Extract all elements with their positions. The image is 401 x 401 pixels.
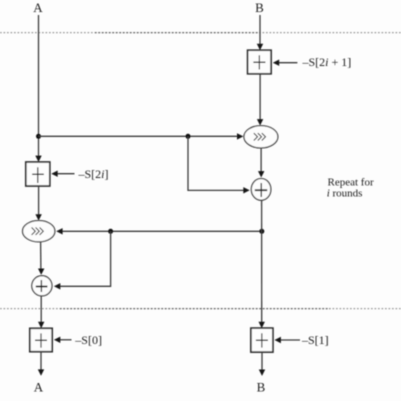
wire A down to adder box: [38, 15, 40, 157]
plus sign in adder S[0]: [40, 333, 42, 347]
plus sign in adder S[1]: [261, 333, 263, 347]
arrowhead into adder S[2i]: [35, 156, 41, 162]
svg-text:–S[1]: –S[1]: [301, 333, 329, 347]
plus in left XOR: [36, 286, 48, 288]
svg-text:A: A: [34, 380, 44, 395]
arrowhead into right rotate top: [257, 119, 263, 125]
wire left XOR down to adder S[0]: [40, 296, 42, 323]
plus in right XOR: [255, 189, 267, 191]
svg-text:B: B: [257, 380, 266, 395]
arrow wire into adder S[2i+1] from label: [279, 62, 298, 64]
arrowhead into adder S[2i+1]: [257, 44, 263, 50]
wire right rotate down to right XOR: [260, 148, 262, 172]
junction node at 261.8,231: [259, 229, 264, 234]
svg-text:B: B: [255, 0, 264, 15]
svg-text:i rounds: i rounds: [327, 188, 363, 200]
junction node on A wire: [36, 134, 41, 139]
arrowhead output A: [38, 369, 44, 375]
bottom dashed boundary line: [0, 308, 401, 310]
arrowhead into right XOR top: [258, 171, 264, 177]
arrow wire into adder S[0] from label: [60, 339, 72, 341]
arrowhead into adder S[0]: [38, 322, 44, 328]
arrow wire into adder S[1] from label: [281, 339, 301, 341]
wire B down to adder S[2i+1]: [259, 15, 261, 45]
XOR circle (right): [251, 179, 271, 201]
adder box S[1]: [251, 328, 273, 352]
arrowhead into left rotate from right: [56, 228, 62, 234]
XOR circle (left): [32, 276, 52, 296]
wire adder S[2i] to left rotate: [38, 186, 40, 216]
wire left rotate to left XOR: [40, 242, 42, 270]
wire adder S[2i+1] down to right rotate: [259, 74, 261, 120]
chevrons >>> in right rotate: [254, 133, 266, 140]
arrow wire into adder S[2i] from label: [57, 173, 75, 175]
wire junction 110 down and into left XOR: [60, 231, 111, 286]
adder box S[2i+1]: [248, 50, 272, 74]
plus sign in adder S[2i+1]: [258, 55, 260, 69]
svg-text:–S[2i]: –S[2i]: [78, 167, 109, 181]
wire adder S[1] down to output B: [261, 352, 263, 370]
junction node at 188,136: [186, 134, 191, 139]
chevrons >>> in left rotate: [32, 228, 44, 235]
top dashed boundary line: [0, 32, 401, 34]
wire right XOR down to adder S[1]: [261, 200, 263, 323]
junction node at 110.6,231: [108, 229, 113, 234]
arrowhead into adder S[1]: [259, 322, 265, 328]
arrowhead into right XOR: [243, 187, 249, 193]
adder box S[0]: [30, 328, 52, 351]
rotate-right ellipse (left): [23, 221, 55, 242]
svg-text:–S[0]: –S[0]: [74, 333, 102, 347]
arrowhead into right rotate ellipse: [237, 133, 243, 139]
arrowhead output B: [259, 370, 265, 376]
arrowhead into left XOR from right: [54, 283, 60, 289]
arrowhead into left XOR: [38, 269, 44, 275]
svg-text:–S[2i + 1]: –S[2i + 1]: [302, 55, 352, 69]
svg-text:A: A: [33, 0, 43, 15]
plus sign in adder S[2i]: [37, 167, 39, 183]
horizontal wire from right column into left rotate: [62, 230, 262, 232]
adder box S[2i]: [26, 162, 50, 186]
wire junction to right-rotate (horizontal): [39, 135, 238, 137]
wire adder S[0] down to output A: [40, 352, 42, 371]
rotate-right ellipse (right): [244, 126, 278, 148]
arrowhead into left rotate: [35, 214, 41, 220]
wire junction down and into right XOR: [188, 136, 244, 190]
